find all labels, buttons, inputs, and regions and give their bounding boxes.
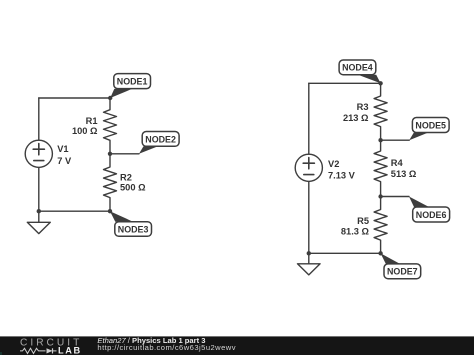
node flag NODE2 [139,132,179,154]
svg-text:81.3 Ω: 81.3 Ω [341,227,370,237]
resistor R1 [104,98,117,154]
svg-text:NODE4: NODE4 [342,63,373,73]
node junction V2 bottom [307,251,311,255]
node flag NODE7 [381,253,421,278]
svg-text:NODE1: NODE1 [117,77,148,87]
svg-text:R5: R5 [357,216,369,226]
wire: V2 top rail [309,82,381,84]
node junction NODE1 attach [108,96,112,100]
node junction V1 bottom [37,209,41,213]
resistor R5 [374,197,387,254]
svg-text:V1: V1 [57,144,68,154]
wire: V1 left rail lower [38,167,40,211]
svg-text:R1: R1 [86,116,98,126]
ground (left) [27,211,50,233]
svg-text:R3: R3 [357,102,369,112]
svg-text:500 Ω: 500 Ω [120,183,146,193]
node junction NODE3 attach [108,209,112,213]
label V1 value [57,144,72,166]
svg-text:LAB: LAB [58,346,82,355]
svg-text:NODE7: NODE7 [387,267,418,277]
voltage source V2 [295,154,322,181]
resistor R4 [374,140,387,196]
node junction NODE4 attach [378,81,382,85]
svg-text:NODE5: NODE5 [415,120,446,130]
label R5 value [341,216,370,237]
svg-text:7.13 V: 7.13 V [328,171,356,181]
label R3 value [343,102,369,123]
footer url line [97,343,236,352]
svg-text:V2: V2 [328,159,339,169]
node flag NODE1 [110,74,150,98]
wire: left circuit bottom [39,210,110,212]
svg-text:7 V: 7 V [57,156,72,166]
svg-text:100 Ω: 100 Ω [72,126,98,136]
resistor R2 [104,154,117,211]
wire: NODE6 stub [381,196,409,198]
svg-text:http://circuitlab.com/c6w63j5u: http://circuitlab.com/c6w63j5u2wewv [97,343,236,352]
label R2 value [120,172,146,192]
label V2 value [328,159,356,181]
node junction NODE7 attach [378,251,382,255]
wire: NODE5 stub [381,139,410,141]
voltage source V1 [25,140,52,167]
label R1 value [72,116,98,136]
footer bar [0,336,474,355]
wire: V2 left rail upper [308,83,310,154]
wire: V1 left rail upper [38,98,40,140]
svg-text:NODE6: NODE6 [416,210,447,220]
svg-text:NODE3: NODE3 [118,224,149,234]
CircuitLab logo wordmark CIRCUIT [20,338,82,349]
ground (right) [298,253,321,275]
node junction R1-R2 [108,152,112,156]
CircuitLab logo diode triangle [47,348,53,353]
wire: V2 left rail lower [308,181,310,253]
node flag NODE6 [409,197,450,223]
svg-text:513 Ω: 513 Ω [391,169,417,179]
node junction R4-R5 [378,194,382,198]
node flag NODE4 [339,60,381,83]
svg-text:NODE2: NODE2 [145,134,176,144]
node flag NODE3 [110,211,152,236]
label R4 value [391,158,417,179]
svg-text:R4: R4 [391,158,404,168]
node junction R3-R4 [378,138,382,142]
CircuitLab logo wordmark LAB [58,346,82,355]
wire: right circuit bottom [309,252,381,254]
node flag NODE5 [409,118,449,141]
resistor R3 [374,83,387,140]
wire: NODE2 stub [110,153,139,155]
svg-text:213 Ω: 213 Ω [343,113,369,123]
svg-text:R2: R2 [120,172,132,182]
footer title line [97,336,205,345]
wire: V1 top rail [39,97,110,99]
CircuitLab logo resistor-diode glyph [20,348,57,353]
